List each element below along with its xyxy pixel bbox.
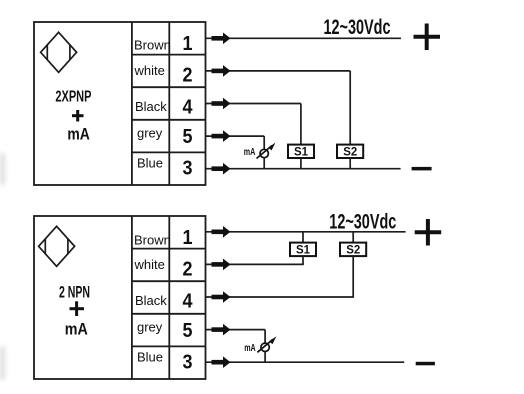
wire pin4 vertical to S1 [300,104,302,145]
svg-text:S1: S1 [294,145,308,159]
row divider 2 [132,86,206,88]
svg-text:white: white [134,63,165,78]
scan shadow top left edge [0,153,5,185]
svg-text:1: 1 [183,33,193,55]
svg-text:Blue: Blue [137,156,163,171]
plus terminal (U2) [415,219,442,246]
wire pin3 minus rail [206,168,401,170]
wire-color column divider [131,22,133,185]
svg-text:1: 1 [183,227,193,249]
wire S2 to +supply (U2) [352,232,354,243]
row divider 4 (U2) [132,345,206,347]
arrow pin1 (U2) [212,226,231,238]
wire S2 down to pin4 (U2) [352,256,354,297]
wire pin5 horizontal [206,135,265,137]
minus terminal (U2) [416,362,435,366]
row divider 1 [132,54,206,56]
arrow pin5 [212,130,231,142]
svg-text:2: 2 [183,259,193,281]
svg-text:mA: mA [244,146,256,158]
label plus sign U1 [72,110,84,122]
sensor U2 outer box [34,216,206,379]
svg-text:5: 5 [183,320,193,342]
wire pin3 minus rail (U2) [206,361,405,363]
wire S2 to minus rail [349,158,351,169]
load S1 box (U2) [290,243,316,257]
wire pin5 vertical to meter (U2) [264,330,266,344]
svg-text:white: white [134,257,165,272]
svg-text:Black: Black [135,99,167,114]
svg-text:grey: grey [137,126,163,141]
wire meter M2 to minus rail [264,352,266,363]
svg-text:Black: Black [135,293,167,308]
load S2 box [337,145,363,159]
row divider 4 [132,151,206,153]
plus terminal [414,24,441,51]
sensor symbol (diamond) U2 [39,226,75,266]
meter M1 (mA) [257,146,273,159]
svg-text:mA: mA [244,342,256,354]
sensor symbol (diamond) U1 [41,32,77,72]
svg-text:4: 4 [183,291,194,313]
svg-text:12~30Vdc: 12~30Vdc [324,16,391,39]
svg-text:12~30Vdc: 12~30Vdc [329,211,396,234]
pin-number column divider [168,22,170,185]
arrow pin2 [212,65,231,77]
svg-text:grey: grey [137,320,163,335]
minus terminal [412,167,432,171]
wire meter M1 to minus rail [263,158,265,169]
arrow pin3 [212,163,231,175]
svg-text:3: 3 [183,352,193,374]
svg-text:S2: S2 [346,243,360,257]
sensor U1 outer box [34,22,206,185]
wire pin4 horizontal [206,103,301,105]
wire-color column divider (U2) [131,216,133,379]
arrow pin5 (U2) [212,324,231,336]
wire S1 down to pin2 (U2) [302,256,304,264]
wire S1 to +supply (U2) [302,232,304,243]
arrow pin4 (U2) [212,291,231,303]
wire pin4 horizontal (U2) [206,296,355,298]
row divider 3 (U2) [132,313,206,315]
wire S1 to minus rail [300,158,302,169]
wire pin1 to +supply (U2) [206,231,406,233]
pin-number column divider (U2) [168,216,170,379]
wire pin2 horizontal (U2) [206,263,304,265]
wire pin2 vertical to S2 [349,71,351,145]
arrow pin4 [212,98,231,110]
wire pin1 to +supply [206,37,402,39]
row divider 2 (U2) [132,280,206,282]
svg-text:Brown: Brown [134,233,171,248]
arrow pin1 [212,33,231,45]
wire pin2 horizontal [206,70,351,72]
svg-text:4: 4 [183,97,194,119]
svg-text:2XPNP: 2XPNP [55,88,91,105]
svg-text:mA: mA [65,320,88,339]
scan shadow bottom left edge [0,346,5,380]
wire pin5 vertical to meter [263,136,265,149]
load S2 box (U2) [340,243,366,257]
svg-text:S2: S2 [343,145,357,159]
wire pin5 horizontal (U2) [206,329,266,331]
svg-text:5: 5 [183,126,193,148]
svg-text:3: 3 [183,158,193,180]
svg-text:Blue: Blue [137,350,163,365]
svg-text:Brown: Brown [134,38,171,53]
meter M2 (mA) [257,339,273,352]
load S1 box [288,145,314,159]
row divider 3 [132,119,206,121]
svg-text:S1: S1 [296,243,310,257]
svg-text:mA: mA [67,125,90,144]
arrow pin2 (U2) [212,259,231,271]
svg-text:2: 2 [183,65,193,87]
arrow pin3 (U2) [212,356,231,368]
svg-text:2 NPN: 2 NPN [59,282,90,301]
row divider 1 (U2) [132,248,206,250]
label plus sign U2 [70,301,85,316]
